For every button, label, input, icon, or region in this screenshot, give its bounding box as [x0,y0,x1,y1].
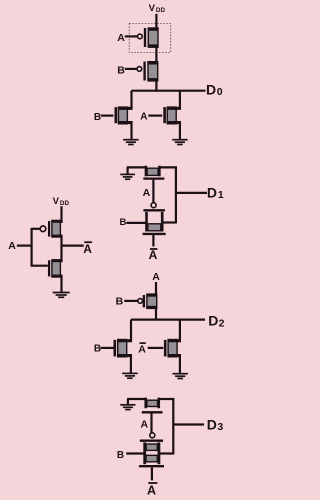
pass-nmos (D1) channel [147,168,158,175]
nmos A2 gate lead [148,347,164,349]
wire pass-nmos right to rail (D1) [159,166,177,168]
svg-text:A: A [140,111,147,122]
svg-text:A: A [138,344,146,356]
wire between pmos A and pmos B [155,47,157,63]
svg-text:3: 3 [217,421,223,433]
label A (pmos A) [117,32,125,44]
svg-text:A: A [152,271,160,283]
inverter nmos gate bar [48,260,50,276]
label Abar (D3) [147,483,157,498]
wire nmos A2 drain to output line [179,320,181,341]
pass-nmos (D3) right contact [158,398,161,409]
nmos A1 gate bar [163,107,166,123]
label B (D3) [117,450,124,461]
svg-text:A: A [117,32,125,44]
svg-text:A: A [149,248,158,262]
inverter pmos gate bubble [40,226,46,232]
ground (D1 top) [120,174,135,179]
nmos B1 channel [118,107,132,124]
svg-text:A: A [143,187,151,199]
dashed selection box around transistor A [129,24,171,53]
wire ground stub to pass-nmos (D1) [127,166,146,168]
wire inverter output rail [60,236,62,261]
svg-text:V: V [149,3,156,14]
wire A down to pmos (D2) [155,282,157,320]
pmos (D2) gate lead [124,300,138,302]
transmission gate (D3) bottom gate bar [139,465,164,467]
label D0 [206,81,223,98]
label A (D3 gates) [141,418,149,430]
wire input A (inverter) [17,245,32,247]
wire output line down to nmos B1 drain [130,91,132,109]
svg-text:1: 1 [218,189,224,201]
svg-text:D: D [207,416,217,432]
transmission gate (D1) right contact [161,212,164,232]
label A (inverter input) [8,240,16,252]
pass-nmos (D1) gate bar [143,177,164,179]
pmos B (gate lead) [125,68,138,70]
label B (D2 pmos) [116,296,124,308]
label B (nmos B1) [94,112,101,123]
pass-nmos (D3) gate bar [142,411,163,413]
bubble on transmission gate p-side (D3) [150,433,155,438]
label D3 [207,416,224,433]
pmos B channel [148,62,158,81]
wire ground drop (D1) [126,167,128,174]
svg-text:B: B [120,217,127,228]
label A (D2 source input) [152,271,160,283]
wire n-gate lead to Abar (D1) [152,235,154,247]
pmos (D2) gate bar [143,295,145,307]
pmos B gate bar [143,62,145,81]
transmission gate (D1) channel [148,224,161,231]
wire ground stub to pass-nmos (D3) [127,398,145,400]
label D2 [208,313,224,330]
nmos B2 gate lead [101,347,114,349]
nmos A1 gate lead [148,114,162,116]
label Abar (nmos A2) [138,343,146,355]
label B (pmos B) [117,64,125,76]
pmos A gate bubble [138,34,143,39]
pmos A (gate lead) [125,35,138,37]
label D1 [207,184,224,201]
input gate tree (inverter) [31,228,33,267]
ground (nmos A1) [172,140,188,145]
inverter pmos channel [52,220,63,237]
nmos A2 channel [168,340,181,357]
nmos B2 channel [118,340,133,357]
label B (nmos B2) [94,344,101,355]
ground (nmos B2) [122,373,137,378]
pass-nmos (D1) left contact [145,166,148,177]
pass-nmos (D1) right contact [158,166,161,177]
wire VDD to PMOS-A source [155,14,157,29]
svg-text:DD: DD [60,200,70,207]
wire ground drop (D3) [127,399,129,404]
transmission gate (D3) right contact [157,442,160,464]
label A (D1 gates) [143,187,151,199]
svg-text:D: D [207,184,217,200]
transmission gate (D1) top gate bar [143,209,165,211]
svg-text:A: A [147,484,156,498]
ground (inverter) [53,293,70,298]
pmos B gate bubble [137,67,142,72]
pass-nmos (D1) gate lead from A [152,180,154,203]
nmos A1 channel [167,107,181,124]
node D2 output line [131,319,205,321]
wire n-gate lead to Abar (D3) [151,468,153,481]
transmission gate (D3) channel p [146,444,157,450]
svg-text:0: 0 [217,86,223,98]
wire pass-nmos right to rail (D3) [159,398,175,400]
wire pmos B drain to output node D0 [155,80,157,92]
wire nmos A1 drain up to output line [179,91,181,109]
svg-text:2: 2 [219,318,225,330]
wire transmission gate to rail (D1) [162,221,176,223]
wire VDD to inverter pmos [60,206,62,223]
wire nmos A1 source to ground [179,122,181,139]
node D0 output line [132,90,206,92]
svg-text:A: A [83,242,92,256]
nmos B1 gate lead [101,114,114,116]
svg-text:B: B [94,344,101,355]
wire nmos B1 source to ground [130,122,132,139]
nmos A2 gate bar [164,340,167,357]
transmission gate (D3) channel n [146,455,157,462]
transmission gate (D3) left contact [143,442,146,464]
ground (D3 top) [120,405,135,410]
svg-text:DD: DD [156,7,166,14]
svg-text:D: D [206,81,216,97]
svg-text:B: B [117,64,125,76]
pass-nmos (D3) left contact [144,398,147,409]
svg-text:A: A [141,418,149,430]
label A (nmos A1) [140,111,147,122]
wire B input (D1) [126,222,147,224]
wire inverter nmos to ground [60,276,62,293]
svg-text:B: B [116,296,124,308]
ground (nmos A2) [173,374,188,379]
svg-text:B: B [117,450,124,461]
wire rail (D3) [172,398,174,455]
nmos B1 gate bar [115,107,118,123]
nmos B2 gate bar [114,340,117,357]
inverter nmos gate stub [32,265,48,267]
power VDD (inverter) [53,196,70,207]
inverter nmos channel [52,260,63,277]
inverter pmos gate bar [48,221,50,237]
label Abar (inverter output) [83,242,92,256]
transmission gate (D3) top gate bar [140,440,163,442]
transmission gate (D1) bottom gate bar [143,233,166,235]
pmos A gate bar [144,28,146,47]
pass-nmos (D3) channel [147,400,158,406]
pmos A channel [148,28,158,47]
label Abar (D1) [149,248,158,262]
wire rail (D1) [175,166,177,223]
wire nmos B2 to ground [130,355,132,373]
power VDD (D0 NOR gate) [149,3,166,14]
wire transmission gate to rail (D3) [160,452,173,454]
svg-text:V: V [53,196,60,207]
wire nmos A2 to ground [179,355,181,373]
svg-text:A: A [8,240,16,252]
wire B input (D3) [126,452,145,454]
label B (D1) [120,217,127,228]
ground (nmos B1) [123,140,138,145]
wire tap to D1 label [176,192,207,194]
wire tap to D3 label [173,423,204,425]
wire output line down to nmos B2 (D2) [130,320,132,341]
wire gate stub to bubble (inverter) [32,228,41,230]
transmission gate (D1) left contact [145,212,148,232]
pmos (D2) gate bubble [138,299,143,304]
svg-text:D: D [208,313,218,329]
pass-nmos (D3) gate lead from A [150,413,152,432]
svg-text:B: B [94,112,101,123]
pmos (D2) channel [147,294,157,308]
wire output to Abar label [62,245,84,247]
bubble on transmission gate p-side (D1) [151,203,156,208]
